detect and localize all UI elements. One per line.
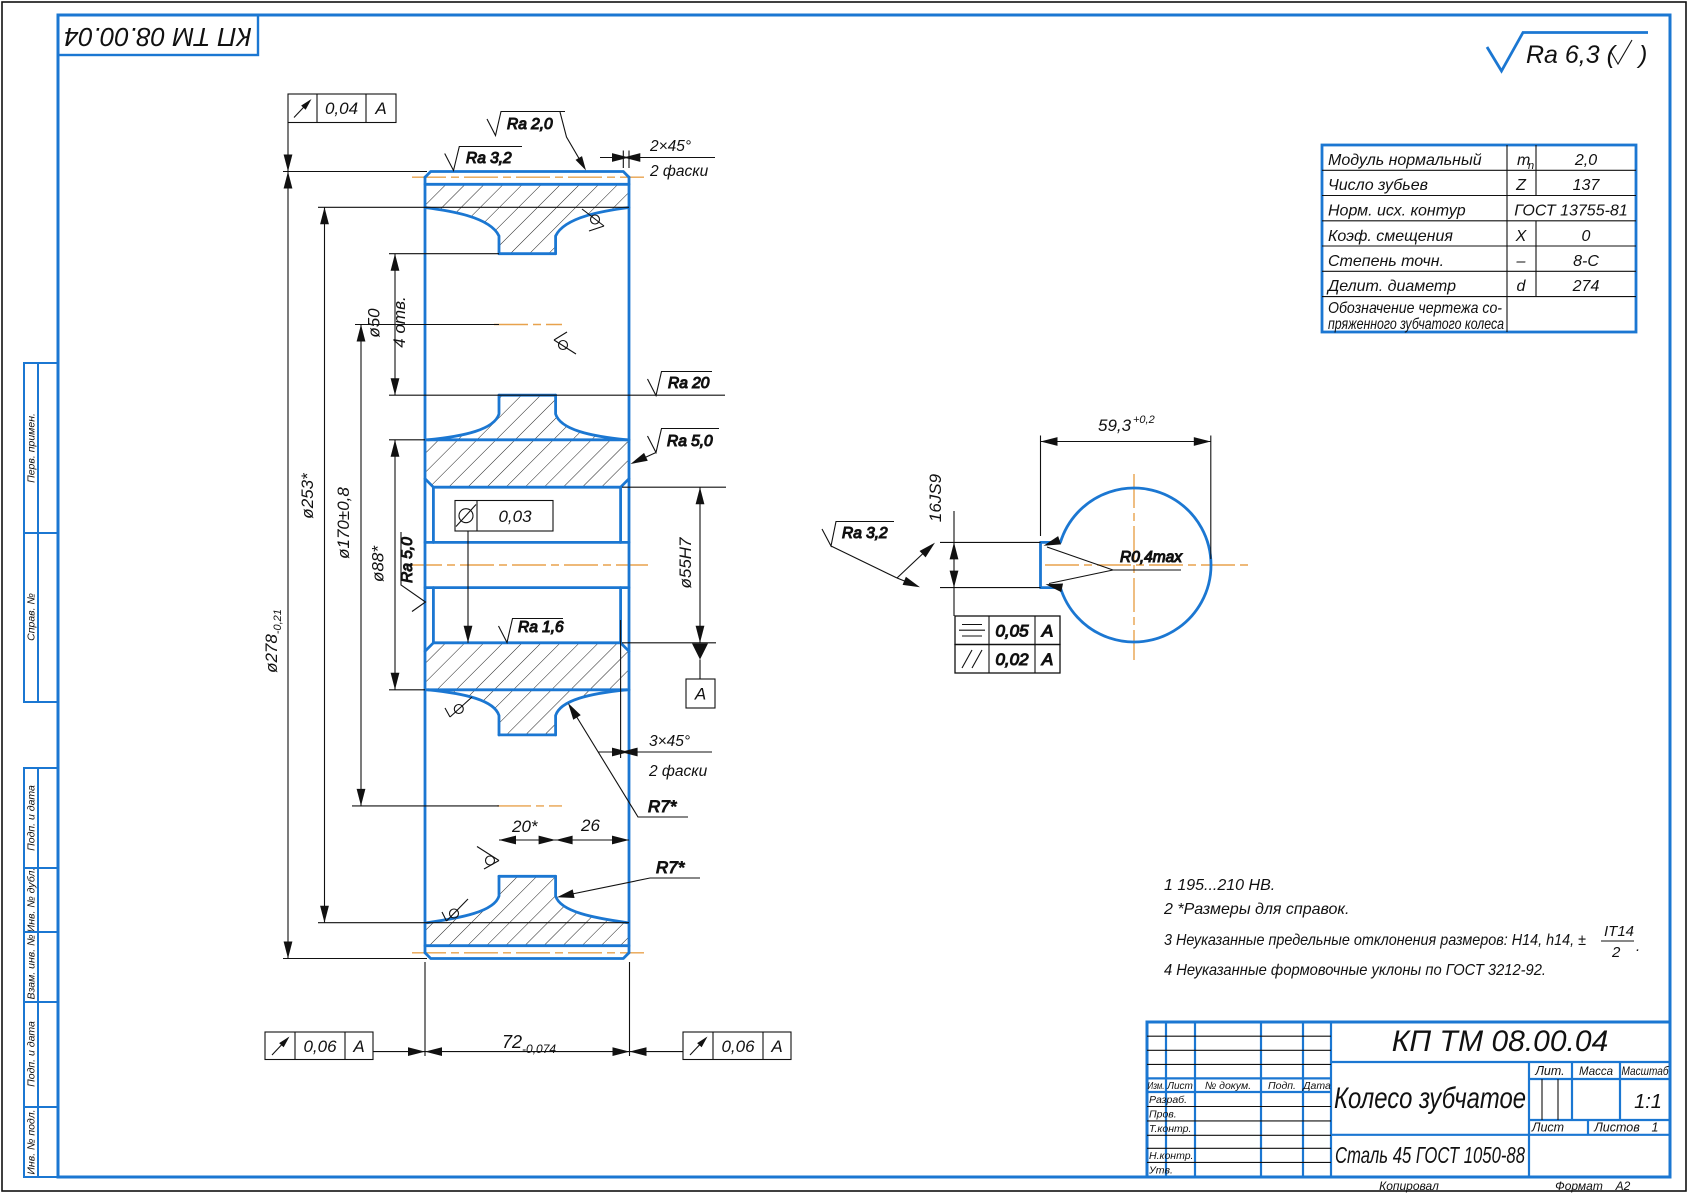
svg-text:Пров.: Пров. [1149,1109,1177,1121]
bore circle with keyway slot [1041,488,1212,642]
MAINVIEW_END [822,414,1248,673]
ext 16JS9 upper [940,541,1041,543]
bottom hole axis [497,805,562,807]
svg-text:А: А [694,685,706,704]
extension lines [940,436,1211,588]
svg-text:Н.контр.: Н.контр. [1149,1150,1193,1162]
roughness Ra 3,2 (top face) [445,147,522,171]
ext rim inner bottom [318,922,629,924]
dimension 59,3+0.2 [1041,414,1211,446]
ext 59,3 right (circle) [1210,436,1212,560]
svg-text:Масса: Масса [1579,1066,1613,1078]
draft taper glyph hub lower left [445,697,472,717]
dimension φ253 [298,207,329,922]
gear axis [408,564,648,566]
svg-text:0,05: 0,05 [995,622,1029,641]
dimension 16JS9 [926,473,958,616]
ext tip bottom [283,958,427,960]
ext 59,3 left (slot bottom) [1040,436,1042,537]
hub top line [425,438,629,441]
ext bore top right [622,486,726,488]
box Справ. № [24,533,58,702]
svg-text:R7*: R7* [648,797,678,816]
svg-text:2 *Размеры для справок.: 2 *Размеры для справок. [1163,901,1349,918]
svg-text:8-С: 8-С [1573,253,1599,270]
black thin rows top (revision rows) [1147,1035,1331,1037]
dimension 20* / 26 [499,816,629,844]
roughness Ra 3,2 keyway sides with double leader [822,522,938,592]
box Подп. и дата (upper) [24,768,58,868]
blue check symbol [1487,33,1648,72]
svg-text:4 Неуказанные формовочные укл: 4 Неуказанные формовочные уклоны по ГОСТ… [1164,962,1546,979]
svg-text:Сталь 45 ГОСТ 1050-88: Сталь 45 ГОСТ 1050-88 [1335,1142,1525,1168]
bottom web to rim taper right [556,876,628,922]
svg-text:2,0: 2,0 [1574,152,1597,169]
svg-text:4 отв.: 4 отв. [390,296,409,347]
roughness Ra 20 (hole surface) [648,372,713,396]
leader R7* upper [564,701,688,817]
top hole upper edge [499,252,556,255]
svg-text:Справ. №: Справ. № [25,593,37,641]
svg-text:R7*: R7* [656,858,686,877]
tolerance frame 0,06 A right [630,1032,792,1060]
svg-text:Разраб.: Разраб. [1149,1094,1187,1106]
bore chamfer verticals top [432,487,435,542]
svg-text:0,03: 0,03 [498,507,532,526]
bottom web to rim taper left [427,876,499,922]
svg-text:Степень точн.: Степень точн. [1328,253,1444,270]
ext 3x45 [620,620,622,758]
svg-text:–: – [1516,253,1526,270]
svg-text:Норм. исх. контур: Норм. исх. контур [1328,203,1466,220]
ext hub top [389,439,425,441]
ext rim inner top [318,206,629,208]
svg-text:КП ТМ 08.00.04: КП ТМ 08.00.04 [64,22,252,52]
svg-text:А: А [1041,622,1053,641]
dimension φ50 4 отв. [365,254,410,396]
hatched rim top + web taper [425,184,629,253]
svg-text:ø170±0,8: ø170±0,8 [334,487,353,559]
svg-text:.: . [1636,938,1640,955]
svg-text:1: 1 [1652,1121,1659,1135]
svg-text:Дата: Дата [1302,1080,1331,1092]
svg-text:26: 26 [580,816,600,835]
svg-text:пряженного зубчатого колеса: пряженного зубчатого колеса [1328,316,1504,333]
draft taper glyph bottom web wall [477,847,499,870]
svg-text:Ra 3,2: Ra 3,2 [842,525,888,542]
draft taper glyph top right [582,209,604,231]
svg-text:А: А [770,1037,782,1056]
dimension φ278 [262,172,292,959]
svg-text:Z: Z [1515,177,1527,194]
box Перв. примен. [24,363,58,533]
tolerance frame symmetry 0,05 A [955,616,1060,645]
top web taper right [556,208,629,254]
blue horizontals left part [1147,1077,1331,1079]
black extension lines [283,151,726,1057]
svg-text:А: А [374,99,386,118]
row lines [1322,169,1636,171]
svg-text:16JS9: 16JS9 [926,473,945,522]
blue verticals left part [1165,1022,1167,1177]
ext hub bottom [389,689,425,691]
ext 2x45 [622,151,624,169]
tolerance frame 0,04 A (runout) [284,94,396,172]
svg-text:Лит.: Лит. [1534,1064,1564,1078]
dimension 2x45 chamfer [600,138,715,180]
top hole lower edge [499,394,556,397]
svg-text:0,02: 0,02 [995,650,1029,669]
svg-text:Обозначение чертежа со-: Обозначение чертежа со- [1328,300,1502,317]
svg-text:Инв. № дубл.: Инв. № дубл. [25,868,37,933]
web wall to hub flare right [556,395,627,440]
svg-text:Делит. диаметр: Делит. диаметр [1326,278,1456,295]
root line top [425,183,629,186]
root line bottom [425,944,629,947]
small black check in parens [1611,40,1632,64]
bottom hole lower edge [499,875,556,878]
svg-text:Лист: Лист [1531,1121,1564,1135]
svg-text:Ra 20: Ra 20 [668,375,710,392]
hatched hub bottom band [425,643,629,690]
svg-text:Модуль нормальный: Модуль нормальный [1328,152,1482,169]
svg-text:Формат: Формат [1555,1179,1603,1193]
svg-text:Ra 3,2: Ra 3,2 [466,150,512,167]
web wall to hub flare left [428,395,499,440]
left face [424,177,427,953]
svg-text:КП ТМ 08.00.04: КП ТМ 08.00.04 [1392,1025,1609,1058]
svg-text:IT14: IT14 [1604,923,1634,940]
svg-text:59,3: 59,3 [1098,416,1132,435]
svg-text:Ra 6,3 (: Ra 6,3 ( [1526,41,1618,69]
ext 72 right [629,962,631,1056]
svg-text:0: 0 [1582,228,1591,245]
svg-text:Копировал: Копировал [1379,1179,1439,1193]
ext hole top [389,253,499,255]
dimension 72-0,074 [425,1032,630,1056]
svg-text:n: n [1528,160,1534,172]
svg-text:0,04: 0,04 [325,99,358,118]
dimension φ170±0,8 [334,325,365,806]
svg-text:0,06: 0,06 [303,1037,337,1056]
svg-text:Ra 2,0: Ra 2,0 [507,116,553,133]
ext tip top [283,171,427,173]
svg-text:А: А [1041,650,1053,669]
ext hole center top [355,324,499,326]
roughness Ra 5,0 (left face, rotated) [399,532,426,612]
leader R0,4max (slot corner radii) [1042,536,1183,592]
svg-text:ГОСТ 13755-81: ГОСТ 13755-81 [1514,203,1627,220]
ext 72 left [424,962,426,1056]
svg-text:Число зубьев: Число зубьев [1328,177,1428,194]
svg-text:274: 274 [1572,278,1600,295]
dimension φ55H7 with datum A [676,487,715,708]
svg-text:Масштаб: Масштаб [1622,1066,1669,1078]
hub bottom line [425,688,629,691]
svg-text:3×45°: 3×45° [649,733,690,750]
ext hole bottom / Ra20 shelf [389,394,725,396]
right part blue lines [1331,1061,1670,1063]
blue gear contour [425,172,629,959]
svg-text:2 фаски: 2 фаски [649,163,709,180]
hatched bottom web + rim [425,876,629,945]
svg-text:3 Неуказанные предельные откл: 3 Неуказанные предельные отклонения разм… [1164,932,1586,949]
ext bore bottom right [622,642,716,644]
svg-text:Инв. № подл.: Инв. № подл. [25,1109,37,1174]
svg-text:+0,2: +0,2 [1133,414,1155,426]
draft taper glyph mid right wall [554,332,576,354]
datum A triangle and box [692,644,708,660]
keyway edge lower [425,586,629,589]
leader R7* lower [556,858,700,902]
svg-text:Утв.: Утв. [1148,1165,1173,1177]
svg-text:1:1: 1:1 [1634,1091,1662,1113]
box Взам. инв. № [24,932,58,1002]
top-left designation box [58,15,258,55]
top web taper left [425,208,499,254]
draft taper glyph bottom rim taper [442,899,468,921]
svg-text:Колесо зубчатое: Колесо зубчатое [1334,1082,1526,1115]
svg-text:d: d [1517,278,1527,295]
svg-text:Ra 1,6: Ra 1,6 [518,619,564,636]
svg-text:№ докум.: № докум. [1205,1080,1251,1092]
box Подп. и дата (lower) [24,1002,58,1107]
dimension φ88 [369,440,400,690]
svg-text:ø55Н7: ø55Н7 [676,537,695,589]
tolerance frame 0,03 (keyway symmetry) [455,501,553,643]
roughness Ra 2,0 (tooth flank) with leader [487,112,589,173]
svg-text:ø88*: ø88* [369,545,388,582]
svg-text:137: 137 [1573,177,1601,194]
column dividers [1506,145,1508,332]
tolerance frame 0,06 A left [265,1032,425,1060]
tip edge bottom with chamfers [425,953,629,959]
svg-text:Перв. примен.: Перв. примен. [25,413,37,483]
keyway edge upper [425,541,629,544]
svg-text:0,06: 0,06 [721,1037,755,1056]
dimension 3x45 chamfer [598,733,712,780]
right face [628,177,631,953]
svg-text:А: А [352,1037,364,1056]
svg-text:2 фаски: 2 фаски [648,763,708,780]
svg-text:Подп.: Подп. [1268,1080,1296,1092]
bore bottom edge with chamfers [425,643,629,652]
svg-text:Коэф. смещения: Коэф. смещения [1328,228,1453,245]
svg-text:20*: 20* [511,817,539,836]
pitch line top [412,176,644,178]
svg-text:ø253*: ø253* [298,472,317,519]
svg-text:Подп. и дата: Подп. и дата [25,785,37,851]
roughness Ra 5,0 (right, with leader) [629,429,719,468]
hatched web below hub [428,690,627,735]
svg-text:Подп. и дата: Подп. и дата [25,1021,37,1087]
black thin dividers in Лит cell [1541,1079,1543,1120]
svg-text:Листов: Листов [1593,1121,1640,1135]
svg-text:Т.контр.: Т.контр. [1149,1123,1191,1135]
svg-text:ø50: ø50 [365,308,384,338]
box Инв. № дубл. [24,868,58,932]
svg-text:X: X [1515,228,1528,245]
roughness Ra 1,6 (bore) [499,619,565,643]
svg-text:2×45°: 2×45° [649,138,691,155]
svg-text:Ra 5,0: Ra 5,0 [399,537,416,583]
svg-text:А2: А2 [1615,1179,1631,1193]
pitch line bottom [412,952,644,954]
svg-text:1 195...210 НВ.: 1 195...210 НВ. [1164,877,1275,894]
svg-text:R0,4max: R0,4max [1120,549,1183,566]
orange centerlines of bore [1045,564,1248,566]
hatched web lower + hub top band [425,395,629,487]
svg-text:Ra 5,0: Ra 5,0 [667,433,713,450]
bottom hole upper edge [499,734,556,737]
hub to web flare bottom right [556,690,627,735]
bore top edge with 3x45 chamfers [425,479,629,488]
ext 16JS9 lower [940,587,1041,589]
top hole axis [494,324,562,326]
svg-text:Изм.: Изм. [1148,1081,1165,1092]
hub to web flare bottom left [428,690,499,735]
tolerance frame parallelism 0,02 A [955,645,1060,674]
black thin rows bottom [1147,1106,1331,1108]
bore chamfer verticals bottom [432,588,435,643]
svg-text:Лист: Лист [1166,1081,1193,1092]
svg-text:Взам. инв. №: Взам. инв. № [25,935,37,1000]
tip edge top with 2x45 chamfers [425,172,629,178]
svg-text:2: 2 [1611,944,1621,961]
ext hole center bottom [352,805,499,807]
box Инв. № подл. [24,1107,58,1177]
